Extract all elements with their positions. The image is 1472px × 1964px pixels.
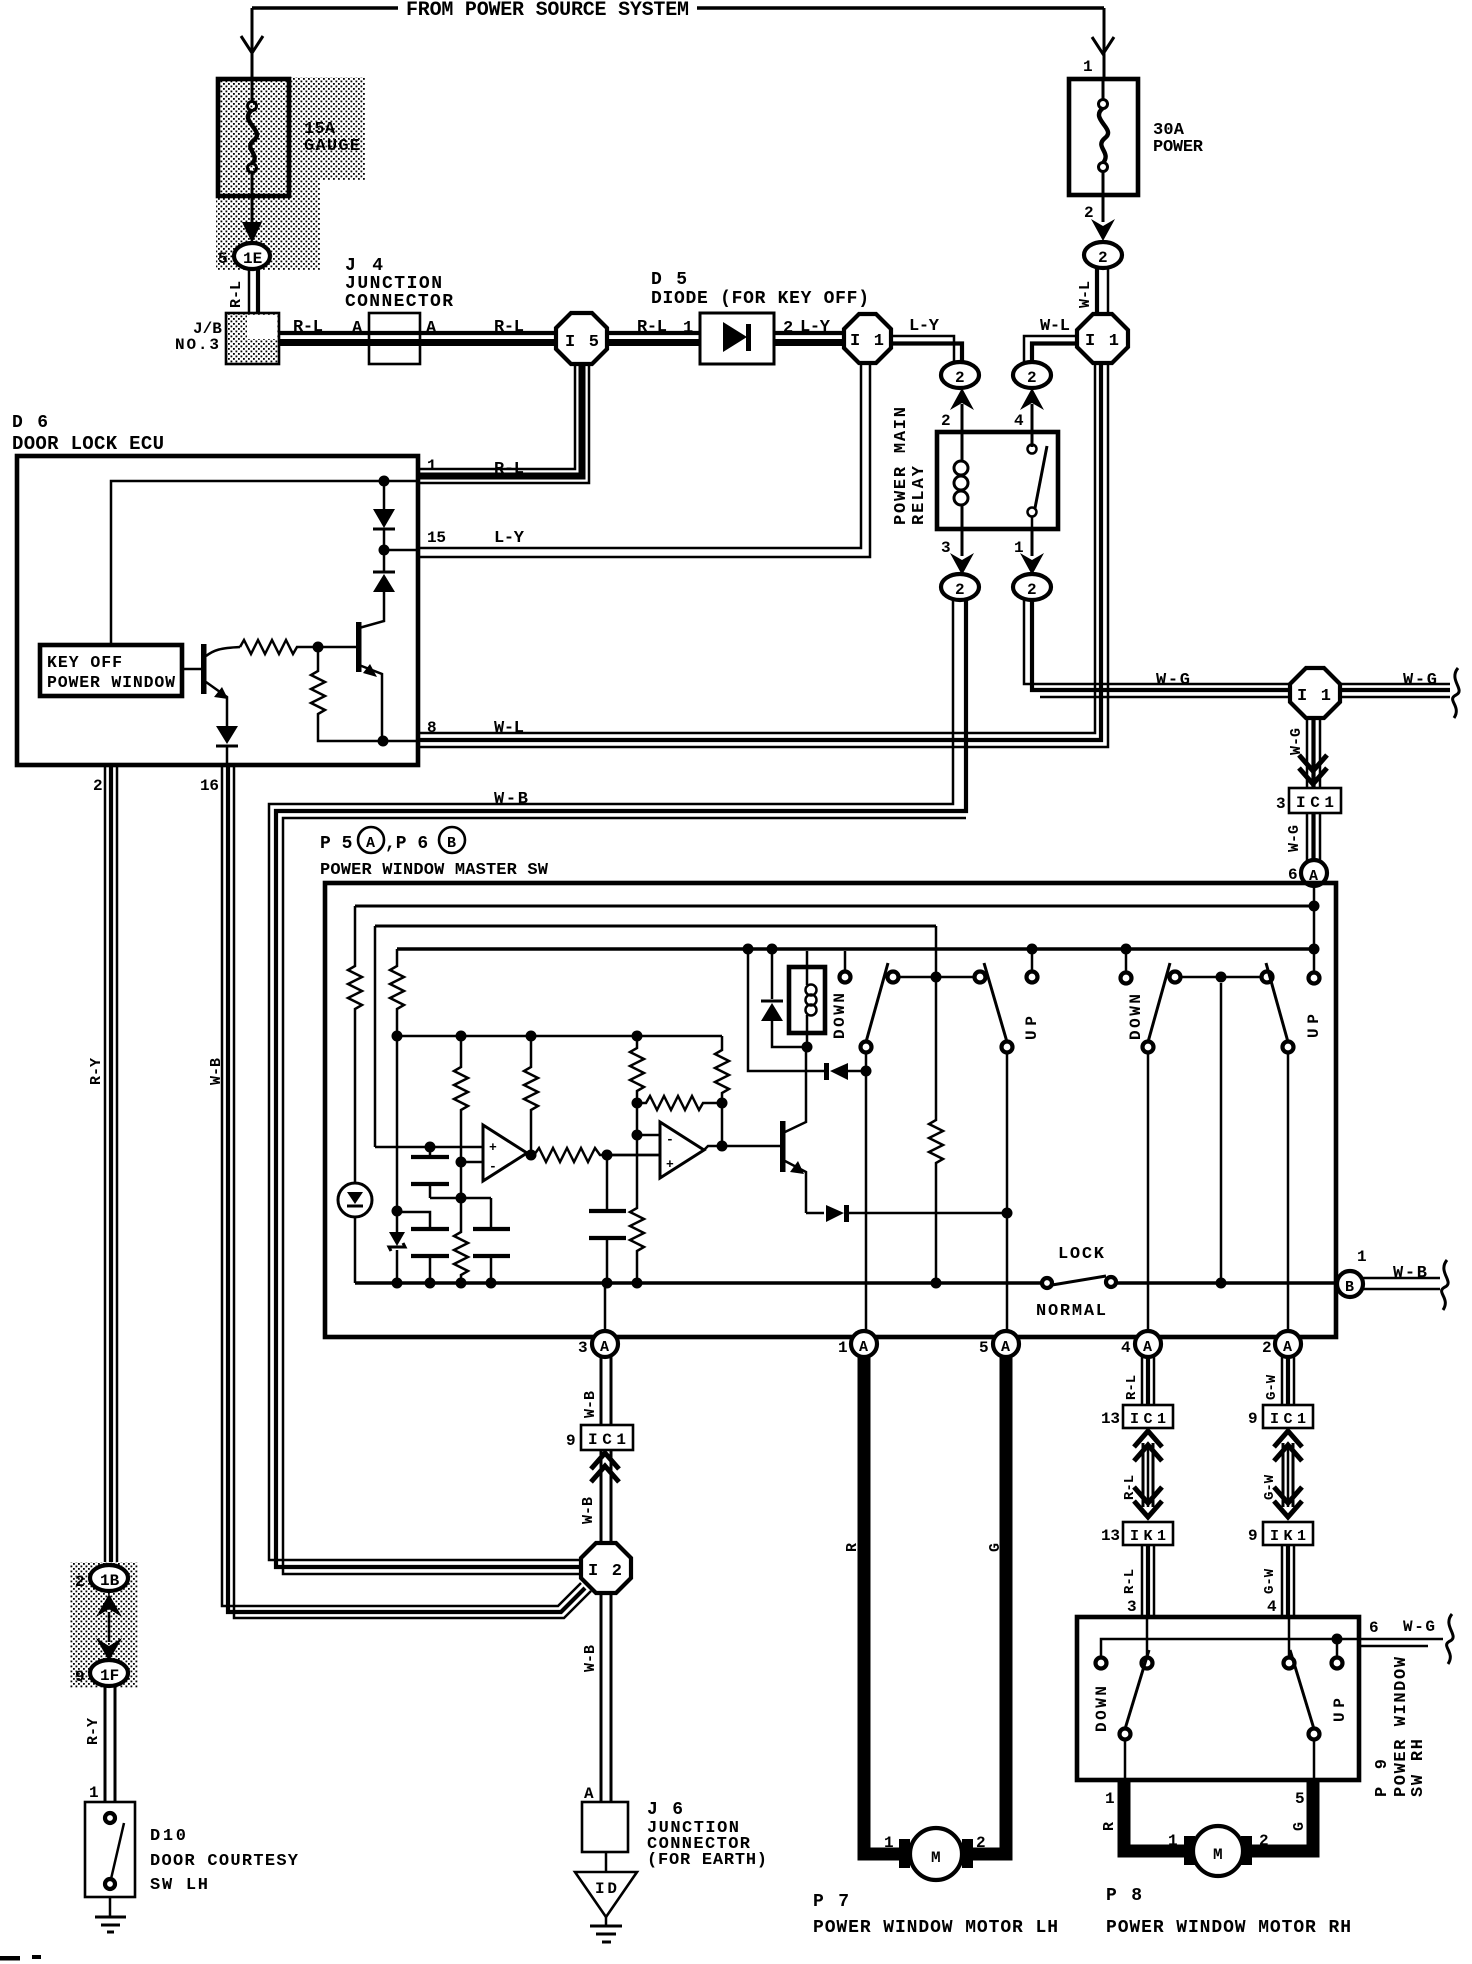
switch LH blade UP — [984, 963, 1013, 1053]
svg-text:W-G: W-G — [1156, 671, 1190, 690]
resistor ECU vertical — [311, 647, 383, 741]
node pin15 junction — [379, 545, 419, 556]
connector pin 2 A — [1262, 1331, 1301, 1357]
svg-text:W-B: W-B — [1393, 1264, 1427, 1283]
svg-text:-: - — [489, 1159, 497, 1174]
node R6 out — [602, 1150, 613, 1161]
connector 9 IC1 upper — [566, 1425, 633, 1450]
label W-G right — [1403, 671, 1437, 690]
wire RH mid contact down — [1216, 983, 1227, 1289]
svg-text:3: 3 — [578, 1339, 588, 1357]
svg-text:1: 1 — [89, 1784, 99, 1802]
diode ECU C — [216, 726, 238, 767]
connector 1F — [75, 1660, 128, 1686]
svg-text:IK1: IK1 — [1270, 1528, 1306, 1545]
svg-text:6: 6 — [1369, 1619, 1379, 1637]
connector oval 2 (30A output) — [1084, 242, 1122, 268]
label L-Y — [909, 317, 940, 336]
svg-text:2: 2 — [93, 777, 103, 795]
svg-text:R-L: R-L — [228, 281, 245, 308]
label 8 W-L — [427, 719, 524, 738]
wire down to 15A fuse — [241, 8, 263, 77]
wire I5 down to ECU pin 1 — [418, 364, 589, 483]
svg-text:A: A — [426, 319, 437, 338]
svg-text:IK1: IK1 — [1130, 1528, 1166, 1545]
connector 9 IC1 right — [1248, 1405, 1313, 1428]
label DOWN P9 — [1093, 1686, 1111, 1732]
capacitor C4 — [589, 1155, 626, 1332]
label D10 DOOR COURTESY SW LH — [150, 1827, 299, 1895]
svg-text:8: 8 — [427, 719, 437, 737]
label LOCK — [1058, 1245, 1105, 1264]
connector 3 IC1 — [1276, 788, 1341, 813]
svg-text:R-L: R-L — [1122, 1475, 1138, 1500]
label R-L — [494, 318, 524, 337]
wire 6A into box buses — [1309, 886, 1320, 973]
label 1 — [1083, 58, 1093, 76]
svg-text:W-G: W-G — [1286, 825, 1303, 852]
zener diode — [389, 1232, 405, 1283]
label W-B vertical — [582, 1391, 599, 1418]
svg-text:D10: D10 — [150, 1827, 186, 1846]
resistor R3 — [454, 1036, 468, 1162]
svg-text:A: A — [352, 319, 363, 338]
connector 13 IC1 — [1101, 1405, 1173, 1428]
svg-text:R: R — [1101, 1822, 1118, 1831]
connector pin 5 A — [979, 1331, 1019, 1357]
P9 blade UP — [1290, 1650, 1320, 1740]
wire opamp2 plus — [607, 1154, 660, 1157]
svg-text:1: 1 — [683, 319, 693, 338]
svg-text:I 2: I 2 — [588, 1562, 622, 1581]
svg-text:LOCK: LOCK — [1058, 1245, 1105, 1264]
svg-text:R-L: R-L — [494, 318, 524, 337]
svg-text:D 6: D 6 — [12, 413, 48, 433]
arrow chevrons up — [591, 1453, 619, 1482]
resistor ECU horizontal — [240, 640, 356, 654]
transistor Q3 — [780, 1047, 806, 1213]
connector pin 3 A — [578, 1331, 618, 1357]
svg-text:W-B: W-B — [494, 790, 528, 809]
label P 8 POWER WINDOW MOTOR RH — [1106, 1886, 1351, 1938]
label W-L vertical — [1077, 281, 1094, 308]
svg-text:1: 1 — [1168, 1832, 1178, 1850]
wire R-L I5 to D5 — [607, 333, 700, 343]
label G vertical RH — [1291, 1822, 1308, 1831]
resistor R4 — [524, 1036, 538, 1155]
label 15 L-Y — [427, 529, 525, 548]
wire 30A fuse feed — [1092, 8, 1114, 77]
label W-B vertical2 — [580, 1497, 597, 1524]
label D 6 DOOR LOCK ECU — [12, 413, 164, 455]
switch RH master contacts — [1121, 944, 1320, 984]
arrow up into 1B — [96, 1594, 122, 1642]
connector oval 2 (relay pin 1) — [1013, 574, 1051, 600]
wire 1E to J/B — [249, 269, 258, 315]
arrow down into 1F — [96, 1638, 122, 1661]
relay coil — [954, 432, 968, 529]
svg-text:2: 2 — [1098, 249, 1108, 267]
svg-text:I 1: I 1 — [1297, 687, 1331, 706]
svg-text:DIODE (FOR KEY OFF): DIODE (FOR KEY OFF) — [651, 289, 869, 309]
svg-text:2: 2 — [976, 1834, 986, 1852]
connector circle 6 A — [1288, 860, 1327, 886]
svg-text:3: 3 — [1276, 795, 1286, 813]
svg-text:M: M — [931, 1849, 941, 1867]
svg-text:G-W: G-W — [1264, 1374, 1280, 1400]
P9 blade DOWN — [1120, 1650, 1150, 1740]
svg-text:A: A — [366, 835, 375, 852]
svg-text:5: 5 — [218, 250, 228, 268]
label W-B right — [1393, 1264, 1427, 1283]
svg-text:5: 5 — [979, 1339, 989, 1357]
svg-text:I 1: I 1 — [1085, 332, 1119, 351]
label 6 W-G — [1369, 1618, 1435, 1637]
label W-B vertical3 — [582, 1645, 599, 1672]
svg-text:POWER WINDOW MOTOR LH: POWER WINDOW MOTOR LH — [813, 1918, 1058, 1938]
svg-text:2: 2 — [955, 369, 965, 387]
wire IK1 to P9 pin3 — [1142, 1545, 1154, 1615]
connector oval 2 (relay pin 2) — [941, 362, 979, 388]
label R vertical — [844, 1543, 861, 1552]
wire L-Y pin 15 to I1 — [418, 363, 870, 557]
label G-W vertical b — [1262, 1474, 1278, 1500]
power window master SW box — [325, 883, 1336, 1337]
svg-text:(FOR EARTH): (FOR EARTH) — [647, 1851, 767, 1870]
diode ECU A — [373, 481, 395, 548]
svg-text:GAUGE: GAUGE — [304, 137, 360, 156]
label W-B — [494, 790, 528, 809]
svg-text:1: 1 — [1357, 1248, 1367, 1266]
svg-text:13: 13 — [1101, 1527, 1120, 1545]
label pin 16 — [200, 777, 219, 795]
svg-text:A: A — [1143, 1339, 1152, 1356]
wire oval to I1 W-L — [1097, 268, 1108, 314]
wire W-G I1 down to IC1 — [1307, 718, 1320, 788]
motor LH — [899, 1828, 973, 1880]
label A pin — [584, 1785, 594, 1803]
label A — [352, 319, 363, 338]
connector oval 2 (relay pin 4) — [1013, 362, 1051, 388]
wire R-L J4 to I5 — [369, 333, 556, 343]
svg-text:A: A — [600, 1339, 609, 1356]
switch LH blade DOWN — [861, 963, 889, 1053]
svg-text:9: 9 — [566, 1432, 576, 1450]
svg-text:KEY OFF: KEY OFF — [47, 653, 122, 672]
svg-text:P 7: P 7 — [813, 1892, 849, 1912]
svg-text:9: 9 — [1248, 1410, 1258, 1428]
svg-text:CONNECTOR: CONNECTOR — [345, 292, 453, 312]
svg-text:1: 1 — [884, 1834, 894, 1852]
svg-text:W-B: W-B — [208, 1058, 225, 1085]
wire emitter rail — [806, 1212, 824, 1215]
svg-text:3: 3 — [1127, 1598, 1137, 1616]
label J/B NO.3 — [175, 320, 222, 354]
wire lock to B — [1116, 1281, 1337, 1285]
svg-text:2: 2 — [941, 412, 951, 430]
connector pin 1 A — [838, 1331, 877, 1357]
resistor R10 — [630, 1135, 644, 1283]
label 30A POWER — [1153, 121, 1204, 157]
fuse 15A GAUGE — [218, 79, 289, 196]
ground symbol D10 — [95, 1897, 126, 1932]
wire 4A to IC1 R-L — [1142, 1357, 1154, 1405]
wire D5 to I1 — [774, 333, 844, 343]
svg-text:DOOR LOCK ECU: DOOR LOCK ECU — [12, 433, 164, 455]
label 1 motor LH — [884, 1834, 894, 1852]
resistor R8 feedback — [637, 1096, 728, 1110]
svg-text:16: 16 — [200, 777, 219, 795]
svg-text:D 5: D 5 — [651, 270, 687, 290]
wire relay pin3 W-B down and left — [269, 600, 966, 1574]
junction I5 octagon — [556, 313, 607, 364]
wire P9 pivots down — [1125, 1740, 1314, 1780]
svg-text:R-L: R-L — [637, 318, 667, 337]
label P 5 A P 6 B — [320, 827, 465, 854]
LED D — [338, 1183, 372, 1283]
label W-L — [1040, 317, 1070, 336]
opamp 2 — [660, 1122, 704, 1178]
P9 contacts — [1096, 1619, 1343, 1669]
svg-text:P 5: P 5 — [320, 834, 352, 854]
svg-text:G: G — [1291, 1822, 1308, 1831]
svg-text:NO.3: NO.3 — [175, 336, 219, 354]
svg-text:2: 2 — [75, 1573, 85, 1591]
svg-text:1: 1 — [427, 457, 437, 475]
svg-text:+: + — [666, 1157, 674, 1172]
opamp 1 — [483, 1125, 527, 1181]
shading around 15A fuse — [216, 77, 365, 270]
label 15A GAUGE — [304, 120, 360, 156]
P9 inner bus — [1101, 1634, 1343, 1664]
label 2 motor RH — [1259, 1832, 1269, 1850]
switch RH blade UP — [1266, 963, 1294, 1053]
svg-text:POWER MAIN: POWER MAIN — [892, 407, 911, 525]
svg-text:RELAY: RELAY — [910, 465, 929, 525]
svg-text:+: + — [489, 1140, 497, 1155]
arrow relay pin1 to oval — [1020, 529, 1044, 575]
label pin 4 P9 — [1267, 1598, 1277, 1616]
label POWER WINDOW MASTER SW — [320, 861, 549, 880]
svg-text:W-G: W-G — [1403, 1618, 1435, 1636]
power main relay box — [937, 432, 1058, 529]
arrow into relay pin 2 — [950, 388, 974, 432]
svg-text:1F: 1F — [100, 1667, 119, 1685]
ECU internal top wire — [111, 476, 418, 646]
label 2 — [1084, 204, 1094, 222]
wire R-L J/B to J4 — [279, 333, 369, 343]
svg-text:4: 4 — [1267, 1598, 1277, 1616]
svg-text:3: 3 — [941, 539, 951, 557]
svg-text:SW LH: SW LH — [150, 1876, 208, 1895]
label pin 1 — [1014, 539, 1024, 557]
label D 5 DIODE (FOR KEY OFF) — [651, 270, 869, 309]
svg-text:9: 9 — [75, 1668, 85, 1686]
wire R thick to motor RH — [1124, 1780, 1188, 1851]
label R-Y vertical — [88, 1058, 105, 1085]
bus A top — [355, 905, 1314, 908]
resistor R11 — [929, 926, 943, 1283]
label pin 2 — [93, 777, 103, 795]
svg-text:IC1: IC1 — [1130, 1411, 1166, 1428]
svg-text:2: 2 — [955, 581, 965, 599]
resistor R7 — [630, 1036, 644, 1141]
wire pivot LH down to pin 1A — [865, 1053, 868, 1331]
label POWER MAIN RELAY vertical — [892, 407, 929, 525]
connector 1E — [218, 243, 270, 269]
svg-text:B: B — [447, 835, 456, 852]
svg-text:1: 1 — [1083, 58, 1093, 76]
svg-text:J 4: J 4 — [345, 256, 383, 276]
wire relay pin4 to I1 W-L — [1024, 336, 1077, 363]
wire from power source left — [252, 6, 1104, 10]
wire W-L pin 8 to I1 — [418, 363, 1108, 747]
svg-text:R-L: R-L — [1122, 1569, 1138, 1594]
ground symbol J6 — [590, 1917, 622, 1942]
bus C switch bus — [397, 947, 1314, 951]
label G vertical — [987, 1543, 1004, 1552]
label DOWN LH — [831, 993, 849, 1039]
lock switch — [1042, 1276, 1116, 1288]
svg-text:J 6: J 6 — [647, 1800, 683, 1820]
label NORMAL — [1036, 1302, 1106, 1321]
connector 1B — [75, 1565, 128, 1591]
wire G thick to motor RH — [1246, 1780, 1313, 1851]
label R-L vertical c — [1122, 1569, 1138, 1594]
svg-text:13: 13 — [1101, 1410, 1120, 1428]
wire 6 W-G out — [1337, 1639, 1443, 1646]
svg-text:L-Y: L-Y — [800, 318, 831, 337]
label P 7 POWER WINDOW MOTOR LH — [813, 1892, 1058, 1938]
wire IC1 to 6A — [1307, 813, 1320, 861]
svg-text:15: 15 — [427, 529, 446, 547]
svg-text:I 1: I 1 — [850, 332, 884, 351]
wire W-B pin 16 down to I2 — [222, 767, 591, 1618]
label R-L 1 — [637, 318, 693, 338]
node emitter junction pin 8 — [378, 736, 419, 747]
label G-W vertical c — [1262, 1568, 1278, 1594]
label W-G vertical — [1288, 728, 1305, 755]
svg-text:P 9: P 9 — [1373, 1759, 1392, 1797]
svg-text:SW RH: SW RH — [1409, 1739, 1428, 1797]
connector pin 4 A — [1121, 1331, 1161, 1357]
label pin 3 P9 — [1127, 1598, 1137, 1616]
wire zener branch — [392, 1036, 403, 1232]
svg-text:2: 2 — [1027, 369, 1037, 387]
motor RH — [1184, 1826, 1252, 1876]
diode D1 SW — [761, 944, 807, 1048]
relay coil box in SW — [789, 967, 825, 1033]
wire opamp2 minus — [637, 1134, 660, 1137]
svg-text:JUNCTION: JUNCTION — [345, 274, 442, 294]
junction I1 octagon W-G — [1290, 668, 1340, 718]
node D2 pivot junction — [861, 1066, 872, 1077]
svg-text:POWER WINDOW: POWER WINDOW — [47, 673, 175, 692]
svg-text:R-Y: R-Y — [85, 1718, 102, 1745]
svg-text:W-G: W-G — [1288, 728, 1305, 755]
wire fuse to 1E — [242, 196, 262, 243]
artifact marks bottom left — [0, 1955, 41, 1961]
svg-text:1: 1 — [1105, 1790, 1115, 1808]
wire opamp1 minus input — [456, 1157, 484, 1199]
label pin 5 P9 — [1295, 1790, 1305, 1808]
wire I2 down to J6 — [601, 1593, 611, 1802]
label UP P9 — [1331, 1698, 1349, 1722]
connector 9 IK1 — [1248, 1522, 1313, 1545]
diode ECU B — [373, 550, 395, 612]
svg-text:M: M — [1213, 1846, 1223, 1864]
node coil collector junction — [802, 1042, 813, 1053]
wire pivot UP LH down to pin 5A — [1006, 1053, 1009, 1331]
label UP LH — [1023, 1016, 1041, 1040]
svg-text:2: 2 — [1259, 1832, 1269, 1850]
capacitor C2 — [397, 1212, 449, 1283]
connector oval 2 (relay pin 3) — [941, 574, 979, 600]
label pin 1 P9 — [1105, 1790, 1115, 1808]
svg-text:R-L: R-L — [1124, 1375, 1140, 1400]
arrow double chevron down right — [1274, 1431, 1302, 1517]
svg-text:R: R — [844, 1543, 861, 1552]
node emitter rail end — [1002, 1208, 1013, 1219]
node base junction — [313, 642, 324, 653]
svg-text:G: G — [987, 1543, 1004, 1552]
arrow relay pin3 to oval — [950, 529, 974, 575]
svg-text:A: A — [1283, 1339, 1292, 1356]
transistor Q1 ECU — [201, 644, 240, 726]
label pin 4 — [1014, 412, 1024, 430]
svg-text:5: 5 — [1295, 1790, 1305, 1808]
wire IC1 to I2 — [601, 1450, 611, 1543]
wire opamp1 out — [526, 1150, 537, 1161]
svg-text:IC1: IC1 — [1270, 1411, 1306, 1428]
svg-text:L-Y: L-Y — [909, 317, 940, 336]
label pin 2 — [941, 412, 951, 430]
wire G thick to motor LH — [966, 1357, 1006, 1854]
svg-text:G-W: G-W — [1262, 1474, 1278, 1500]
svg-text:W-L: W-L — [1077, 281, 1094, 308]
label A right — [426, 319, 437, 338]
svg-text:POWER WINDOW MASTER SW: POWER WINDOW MASTER SW — [320, 861, 549, 880]
svg-text:FROM POWER SOURCE SYSTEM: FROM POWER SOURCE SYSTEM — [406, 0, 689, 22]
wire 1F to D10 — [105, 1686, 115, 1802]
label UP RH — [1305, 1014, 1323, 1038]
label P 9 POWER WINDOW SW RH vertical — [1373, 1656, 1428, 1797]
capacitor C3 — [473, 1198, 510, 1283]
resistor R9 — [715, 1036, 729, 1146]
label 2 L-Y — [783, 318, 831, 338]
svg-text:2: 2 — [1027, 581, 1037, 599]
shading around 1B 1F — [70, 1562, 138, 1688]
svg-text:I 5: I 5 — [565, 333, 599, 352]
svg-text:4: 4 — [1014, 412, 1024, 430]
svg-text:W-B: W-B — [582, 1645, 599, 1672]
capacitor C1 — [411, 1142, 449, 1199]
junction I2 octagon — [581, 1543, 631, 1593]
wire pivot RH up to pin 2A — [1287, 1053, 1290, 1331]
svg-text:-: - — [666, 1132, 674, 1147]
node R11 bottom — [931, 1278, 942, 1289]
wire opamp1 plus input — [375, 1146, 483, 1149]
torn edge squiggle W-B — [1442, 1260, 1449, 1310]
svg-text:2: 2 — [783, 319, 793, 338]
torn edge squiggle W-G — [1453, 668, 1460, 718]
switch LH contacts — [840, 944, 1038, 983]
junction I1 octagon W-L — [1077, 314, 1128, 363]
svg-text:R-L: R-L — [293, 318, 323, 337]
svg-text:B: B — [1345, 1279, 1354, 1296]
junction block J/B NO.3 — [226, 313, 279, 364]
label J 6 JUNCTION CONNECTOR FOR EARTH — [647, 1800, 767, 1870]
